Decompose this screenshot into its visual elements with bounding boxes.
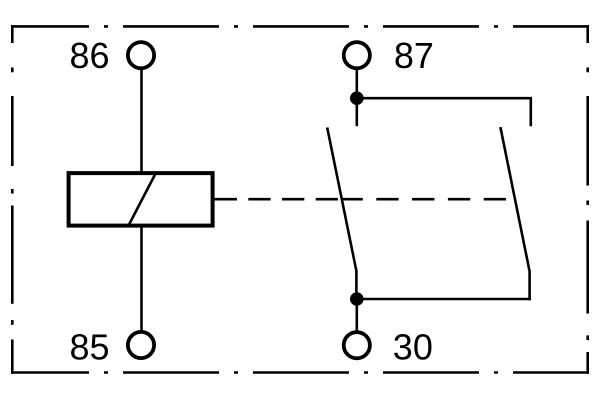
wire coil to 85: [140, 227, 143, 332]
contact arm (right, movable): [500, 127, 529, 300]
terminal 30: [344, 332, 370, 358]
wire 30 bus (bottom horizontal): [357, 298, 531, 301]
mechanical link (dashed, coil to left arm): [215, 198, 341, 201]
wire junction to right fixed contact: [357, 98, 531, 126]
enclosure outline (relay housing, dash-dot top edge): [11, 25, 589, 28]
enclosure outline (relay housing, dash-dot right edge): [586, 25, 589, 374]
terminal 85: [128, 332, 154, 358]
wire 87 to fixed contact (left branch): [355, 70, 358, 126]
svg-text:86: 86: [70, 35, 110, 76]
terminal 87: [344, 42, 370, 68]
enclosure outline (relay housing, dash-dot left edge): [11, 25, 14, 374]
mechanical link (dashed, left arm to right arm): [341, 198, 514, 201]
wire junction to 30: [355, 299, 358, 331]
enclosure outline (relay housing, dash-dot bottom edge): [11, 371, 589, 374]
terminal 86: [128, 42, 154, 68]
contact arm (left, movable): [327, 128, 356, 301]
wire 86 to coil: [140, 70, 143, 174]
svg-text:30: 30: [393, 326, 433, 367]
junction node (87 branch): [350, 91, 364, 105]
junction node (30 branch): [350, 292, 364, 306]
svg-text:87: 87: [394, 35, 434, 76]
relay coil K1: [69, 173, 213, 226]
svg-text:85: 85: [70, 326, 110, 367]
